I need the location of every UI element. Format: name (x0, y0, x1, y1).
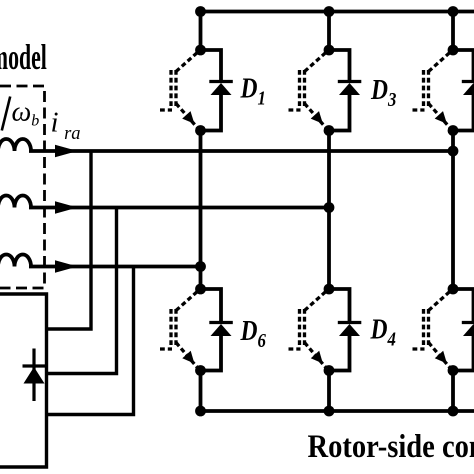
wire leg 1 (phase c) midsection (199, 131, 203, 290)
wire leg 2 (phase b) top-rail to upper cell (327, 12, 331, 51)
wire collector branch of Q3/D3 (329, 50, 350, 81)
node Q5 collector (dot) (448, 45, 459, 56)
transistor Q5 gate lead (413, 108, 425, 111)
transistor Q6 emitter lead (176, 343, 199, 370)
node bottom rail junction dot leg 1 (195, 406, 206, 417)
crowbar circuit box (0, 294, 47, 467)
wire emitter branch of Q4/D4 (329, 336, 350, 371)
wire emitter branch of Q1/D1 (201, 95, 222, 131)
wire leg 1 (phase c) top-rail to upper cell (199, 12, 203, 51)
wire rotor phase c line (29, 265, 201, 269)
transistor Q2 emitter arrow (435, 351, 447, 364)
transistor Q1 body bar (174, 70, 177, 106)
wire phase c tap down to crowbar box (47, 267, 134, 415)
transistor Q4 collector lead (305, 290, 328, 311)
diode D4 triangle (339, 324, 360, 336)
transistor Q5 emitter arrow (435, 111, 447, 124)
diode D6 triangle (211, 324, 232, 336)
node phase c / leg 1 junction dot (195, 261, 206, 272)
node bottom rail junction dot leg 2 (324, 406, 335, 417)
arrow current direction i_rc (55, 260, 78, 272)
inductor rotor phase c winding coil (0, 255, 31, 267)
wire collector branch of Q2/D2 (453, 289, 474, 322)
svg-text:D1: D1 (240, 73, 266, 109)
node Q4 emitter (dot) (324, 365, 335, 376)
wire phase a tap down to crowbar box (47, 151, 92, 329)
diode D2 cathode bar (462, 321, 474, 324)
wire emitter branch of Q3/D3 (329, 95, 350, 131)
transistor Q3 gate bar (298, 70, 301, 106)
transistor Q2 emitter lead (429, 343, 452, 370)
wire bottom DC bus rail (199, 409, 474, 413)
wire collector branch of Q1/D1 (201, 50, 222, 81)
svg-text:ira: ira (51, 107, 81, 145)
transistor Q3 body bar (303, 70, 306, 106)
diode D2 triangle (463, 324, 474, 336)
node Q3 collector (dot) (324, 45, 335, 56)
transistor Q1 emitter lead (176, 104, 199, 130)
svg-text:D3: D3 (370, 74, 396, 110)
transistor Q1 gate lead (160, 108, 172, 111)
wire collector branch of Q5/D5 (453, 50, 474, 81)
transistor Q4 gate bar (298, 309, 301, 345)
transistor Q1 collector lead (176, 51, 199, 72)
transistor Q1 emitter arrow (182, 111, 194, 124)
transistor Q2 body bar (427, 309, 430, 345)
diode inside crowbar box: lead (32, 349, 35, 402)
transistor Q2 gate bar (422, 309, 425, 345)
wire emitter branch of Q2/D2 (453, 336, 474, 371)
transistor Q6 gate lead (160, 347, 172, 350)
transistor Q5 collector lead (429, 51, 452, 72)
node Q2 collector (dot) (448, 284, 459, 295)
wire leg 3 (phase a) top-rail to upper cell (451, 12, 455, 51)
transistor Q1 gate bar (169, 70, 172, 106)
diode inside crowbar box: cathode bar (23, 364, 46, 367)
wire leg 3 (phase a) midsection (451, 131, 455, 290)
diode D5 triangle (463, 83, 474, 95)
node Q1 collector (dot) (195, 45, 206, 56)
transistor Q4 gate lead (289, 347, 301, 350)
node top rail junction dot leg 3 (448, 6, 459, 17)
node phase b / leg 2 junction dot (324, 202, 335, 213)
node Q1 emitter (dot) (195, 125, 206, 136)
svg-text:ωb: ωb (12, 97, 40, 130)
node top rail junction dot leg 1 (195, 6, 206, 17)
inductor rotor phase b winding coil (0, 196, 31, 208)
arrow current direction i_rb (55, 201, 78, 213)
transistor Q4 emitter lead (305, 343, 328, 370)
wire rotor phase a line (29, 149, 453, 153)
wire collector branch of Q4/D4 (329, 289, 350, 322)
transistor Q4 emitter arrow (311, 351, 323, 364)
node Q6 emitter (dot) (195, 365, 206, 376)
node Q6 collector (dot) (195, 284, 206, 295)
svg-text:D6: D6 (240, 315, 267, 351)
transistor Q3 gate lead (289, 108, 301, 111)
transistor Q2 gate lead (413, 347, 425, 350)
diode D4 cathode bar (338, 321, 362, 324)
transistor Q3 emitter arrow (311, 111, 323, 124)
label fraction slash of /omega_b (2, 97, 10, 131)
node Q5 emitter (dot) (448, 125, 459, 136)
svg-text:model: model (0, 39, 47, 78)
transistor Q5 gate bar (422, 70, 425, 106)
inductor rotor phase a winding coil (0, 139, 31, 151)
svg-text:Rotor-side converter: Rotor-side converter (308, 428, 474, 464)
diode inside crowbar box: triangle (24, 367, 45, 384)
wire emitter branch of Q5/D5 (453, 95, 474, 131)
wire emitter branch of Q6/D6 (201, 336, 222, 371)
wire leg 3 (phase a) lower cell to bottom rail (451, 371, 455, 412)
wire leg 2 (phase b) midsection (327, 131, 331, 290)
transistor Q6 emitter arrow (182, 351, 194, 364)
transistor Q3 emitter lead (305, 104, 328, 130)
diode D3 triangle (339, 83, 360, 95)
diode D1 triangle (211, 83, 232, 95)
transistor Q6 collector lead (176, 290, 199, 311)
transistor Q6 gate bar (169, 309, 172, 345)
transistor Q2 collector lead (429, 290, 452, 311)
transistor Q5 emitter lead (429, 104, 452, 130)
transistor Q6 body bar (174, 309, 177, 345)
diode D1 cathode bar (209, 80, 233, 83)
wire top DC bus rail (201, 10, 474, 14)
node phase a / leg 3 junction dot (448, 146, 459, 157)
transistor Q5 body bar (427, 70, 430, 106)
node bottom rail junction dot leg 3 (448, 406, 459, 417)
node Q2 emitter (dot) (448, 365, 459, 376)
wire collector branch of Q6/D6 (201, 289, 222, 322)
diode D6 cathode bar (209, 321, 233, 324)
node Q3 emitter (dot) (324, 125, 335, 136)
diode D5 cathode bar (462, 80, 474, 83)
wire rotor phase b line (29, 206, 329, 210)
transistor Q4 body bar (303, 309, 306, 345)
wire phase b tap down to crowbar box (47, 208, 117, 374)
wire leg 1 (phase c) lower cell to bottom rail (199, 371, 203, 412)
node top rail junction dot leg 2 (324, 6, 335, 17)
rotor model dashed boundary box (0, 86, 45, 288)
transistor Q3 collector lead (305, 51, 328, 72)
arrow current direction i_ra (55, 145, 78, 157)
svg-text:D4: D4 (370, 314, 396, 350)
wire leg 2 (phase b) lower cell to bottom rail (327, 371, 331, 412)
diode D3 cathode bar (338, 80, 362, 83)
node Q4 collector (dot) (324, 284, 335, 295)
